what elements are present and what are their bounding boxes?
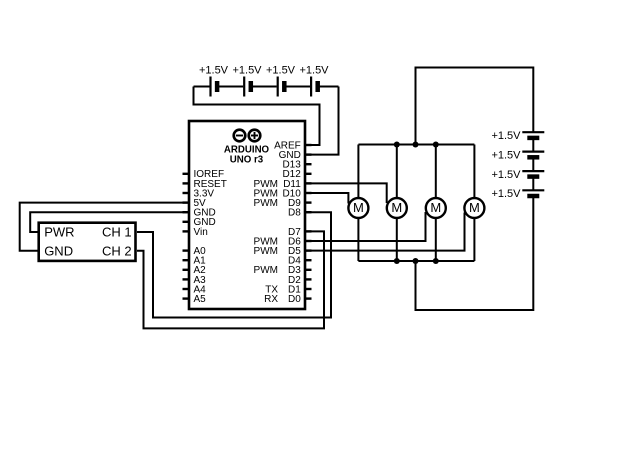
battery B3 +1.5V [266, 65, 296, 97]
arduino logo plus circle [249, 130, 261, 142]
battery B4 +1.5V [299, 65, 329, 97]
svg-text:PWR: PWR [44, 225, 74, 240]
motor M1 [348, 198, 368, 218]
arduino left pin stubs [183, 174, 190, 299]
arduino right pin labels [274, 140, 301, 305]
wire 5V to receiver GND [20, 203, 190, 251]
battery B5 +1.5V (right stack) [491, 130, 544, 142]
wire motor4 bottom [473, 218, 475, 262]
battery B6 +1.5V (right stack) [491, 149, 544, 161]
svg-text:+1.5V: +1.5V [491, 130, 521, 142]
svg-text:M: M [391, 200, 402, 215]
battery B1 +1.5V [199, 65, 229, 97]
svg-text:GND: GND [44, 243, 73, 258]
wire top-right rail from top motor bus to right battery stack [416, 68, 534, 145]
svg-text:PWM: PWM [254, 265, 278, 276]
svg-text:+1.5V: +1.5V [491, 169, 521, 181]
wire battery stack bottom rail to motor bottom bus feed [416, 196, 534, 310]
wire motor3 top [435, 145, 437, 199]
arduino PWM / TX / RX labels [254, 179, 279, 305]
wire bottom motor bus [358, 260, 474, 262]
junction top bus feed [413, 142, 419, 148]
svg-text:Vin: Vin [194, 227, 208, 238]
svg-text:M: M [353, 200, 364, 215]
svg-text:+1.5V: +1.5V [299, 65, 329, 77]
wire motor3 bottom [435, 218, 437, 262]
wire motor2 top [396, 145, 398, 199]
arduino left pin labels [194, 169, 227, 305]
wire D6 to motor M3 [304, 212, 426, 241]
svg-text:+1.5V: +1.5V [491, 188, 521, 200]
wire top battery row [194, 86, 339, 88]
wire between B6 and B7 [532, 157, 534, 171]
wire motor2 bottom [396, 218, 398, 262]
wire motor1 top [357, 145, 359, 199]
svg-text:+1.5V: +1.5V [199, 65, 229, 77]
battery B7 +1.5V (right stack) [491, 169, 544, 181]
svg-text:M: M [430, 200, 441, 215]
svg-text:PWM: PWM [254, 198, 278, 209]
svg-text:+1.5V: +1.5V [266, 65, 296, 77]
svg-text:D0: D0 [288, 294, 301, 305]
wire battery row right end to GND pin [304, 87, 339, 155]
svg-text:D8: D8 [288, 208, 301, 219]
wire D11 to motor M2 [304, 183, 387, 203]
junction top bus at motor3 [433, 142, 439, 148]
junction top bus at motor2 [394, 142, 400, 148]
wire between B5 and B6 [532, 138, 534, 152]
junction bottom bus at motor2 [394, 258, 400, 264]
svg-text:CH 2: CH 2 [102, 243, 132, 258]
svg-text:+1.5V: +1.5V [491, 149, 521, 161]
svg-text:RX: RX [264, 294, 278, 305]
wire D10 to motor M1 [304, 193, 348, 204]
svg-text:PWM: PWM [254, 246, 278, 257]
wire D7 to CH 2 [137, 231, 324, 328]
wire top motor bus [358, 144, 474, 146]
svg-text:UNO r3: UNO r3 [230, 155, 264, 166]
battery B8 +1.5V (right stack) [491, 188, 544, 200]
wire motor4 top [473, 145, 475, 199]
junction bottom bus feed [413, 258, 419, 264]
receiver box [39, 223, 136, 261]
svg-text:A5: A5 [194, 294, 207, 305]
svg-text:M: M [469, 200, 480, 215]
svg-text:CH 1: CH 1 [102, 225, 132, 240]
motor M2 [387, 198, 407, 218]
motor M3 [426, 198, 446, 218]
arduino right pin stubs [305, 145, 312, 299]
motor M4 [464, 198, 484, 218]
battery B2 +1.5V [232, 65, 262, 97]
wire motor1 bottom [357, 218, 359, 262]
junction bottom bus at motor3 [433, 258, 439, 264]
svg-text:+1.5V: +1.5V [232, 65, 262, 77]
wire top battery row left drop to AREF [194, 87, 320, 146]
wire between B7 and B8 [532, 177, 534, 191]
wire GND to receiver PWR [30, 212, 190, 232]
arduino U1 box [189, 121, 305, 309]
wire D5 to motor M4 [304, 213, 465, 251]
arduino logo minus circle [234, 130, 246, 142]
wire D8 to CH 1 [137, 212, 331, 317]
